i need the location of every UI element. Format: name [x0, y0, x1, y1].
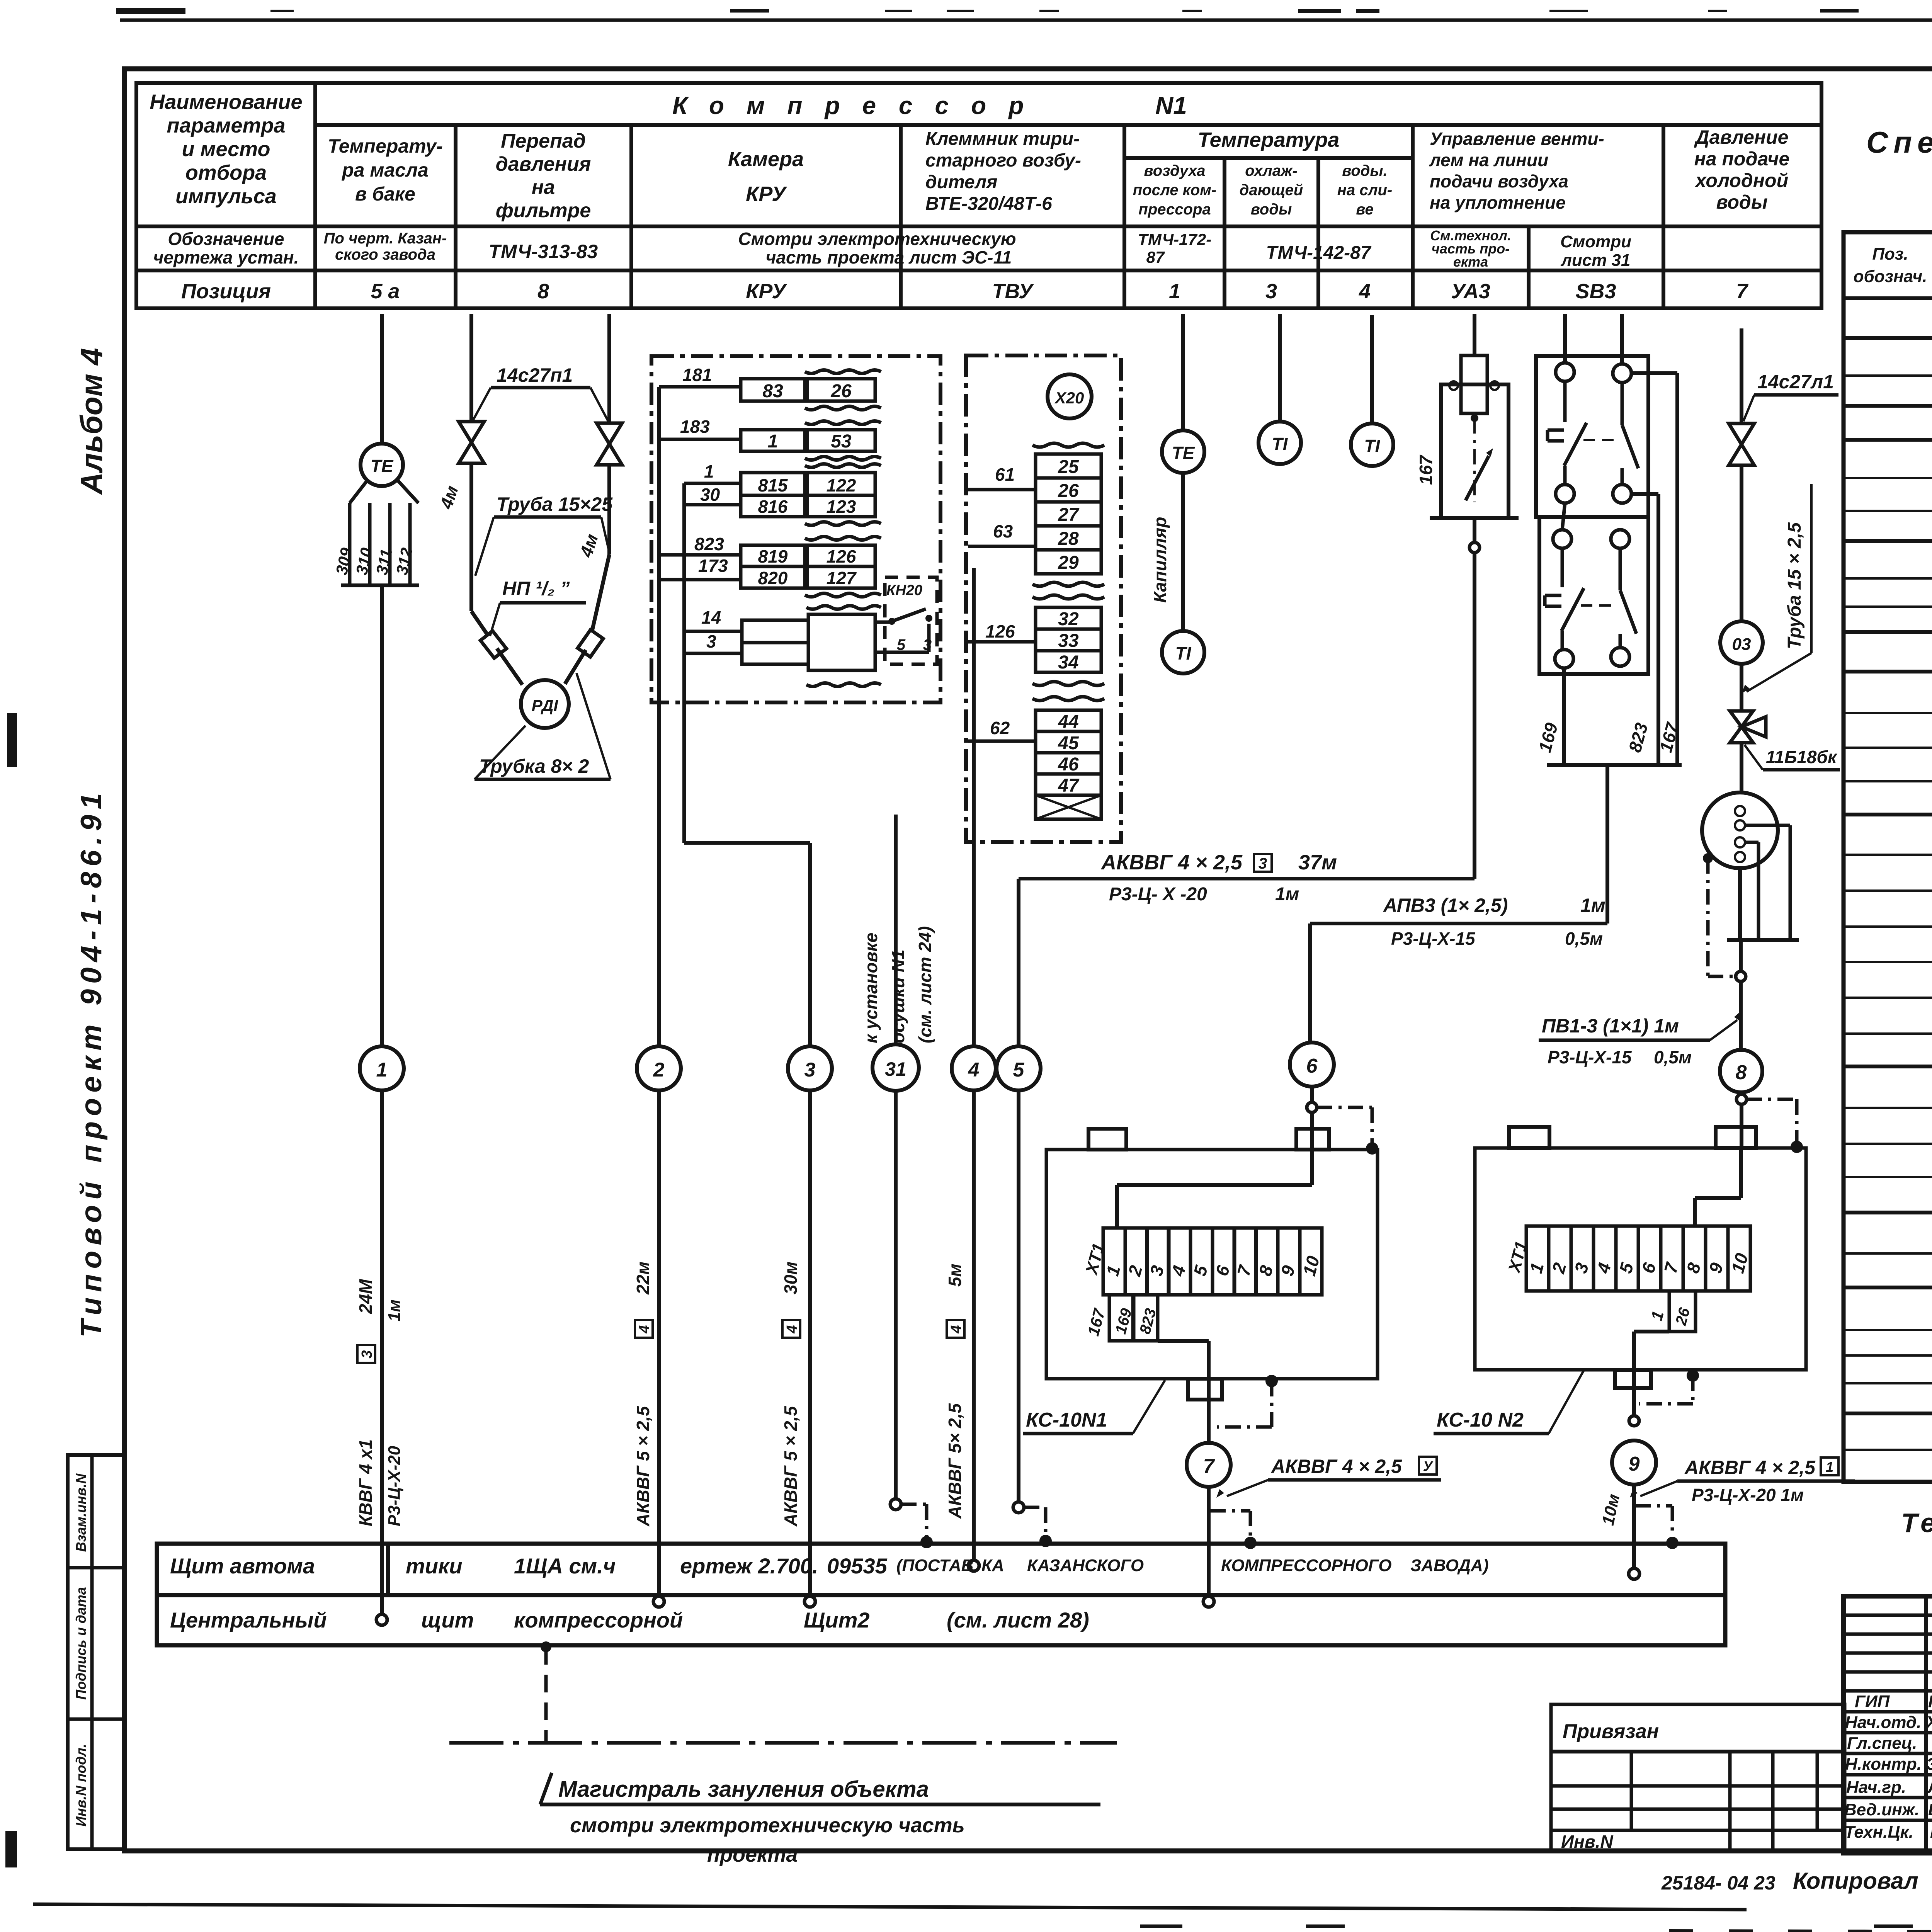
- svg-text:8: 8: [537, 280, 549, 303]
- svg-text:ПВ1-3 (1×1) 1м: ПВ1-3 (1×1) 1м: [1542, 1015, 1679, 1037]
- svg-text:Х20: Х20: [1054, 389, 1084, 407]
- instrument TE (oil temperature): [361, 444, 403, 486]
- svg-text:122: 122: [827, 475, 856, 495]
- svg-text:смотри электротехническую: смотри электротехническую часть: [570, 1814, 965, 1837]
- wire 167 down to cable run: [1473, 518, 1476, 879]
- svg-text:4: 4: [784, 1325, 800, 1333]
- svg-text:КАЗАНСКОГО: КАЗАНСКОГО: [1027, 1556, 1144, 1575]
- svg-text:Григорьян: Григорьян: [1928, 1692, 1932, 1711]
- svg-text:ертеж 2.700.: ертеж 2.700.: [680, 1554, 818, 1578]
- wire node 7 to panel: [1207, 1487, 1211, 1599]
- spec row Клапан угловой 14с 27п1: [1844, 336, 1932, 340]
- spec row Труба водогазопроводная: [1844, 1211, 1932, 1214]
- svg-text:Температура: Температура: [1198, 128, 1340, 151]
- svg-text:на уплотнение: на уплотнение: [1430, 192, 1566, 213]
- spec row КС-20: [1844, 477, 1932, 479]
- cabinet dash-dot box X20: [966, 355, 1121, 842]
- instrument TI drain water: [1370, 315, 1374, 423]
- crossed spare cell: [1036, 795, 1101, 819]
- svg-text:62: 62: [990, 718, 1010, 738]
- svg-text:3: 3: [1265, 280, 1277, 303]
- spec row Соединитель НП-1/2": [1844, 630, 1932, 634]
- svg-text:АКВВГ 5 × 2,5: АКВВГ 5 × 2,5: [781, 1406, 801, 1527]
- capillary line: [1181, 473, 1185, 631]
- svg-text:3: 3: [1259, 855, 1267, 872]
- spec row Р3-Ц - Х -15: [1844, 712, 1932, 714]
- svg-text:Технические: Технические: [1901, 1508, 1932, 1538]
- svg-text:Р3-Ц-Х-15: Р3-Ц-Х-15: [1548, 1047, 1632, 1067]
- svg-text:проекта: проекта: [707, 1843, 798, 1866]
- svg-text:14с27п1: 14с27п1: [497, 364, 573, 386]
- svg-text:Перепад: Перепад: [501, 130, 586, 152]
- svg-text:819: 819: [758, 546, 788, 566]
- svg-text:SВ3: SВ3: [1575, 280, 1616, 303]
- svg-text:после ком-: после ком-: [1133, 182, 1216, 199]
- svg-text:33: 33: [1058, 631, 1079, 651]
- svg-text:ТI: ТI: [1364, 436, 1381, 456]
- svg-text:2: 2: [653, 1059, 665, 1081]
- valve 14s27p1: [1729, 423, 1754, 444]
- svg-text:14с27л1: 14с27л1: [1757, 371, 1834, 393]
- svg-text:44: 44: [1058, 712, 1078, 732]
- svg-text:28: 28: [1058, 529, 1079, 549]
- svg-text:У: У: [1423, 1458, 1434, 1474]
- svg-text:ТМЧ-313-83: ТМЧ-313-83: [489, 241, 598, 262]
- spec row ГОСТ 3262-75: [1844, 1252, 1932, 1255]
- svg-text:1: 1: [1169, 280, 1180, 303]
- svg-text:тики: тики: [406, 1554, 463, 1578]
- wire down to node 8: [1738, 868, 1742, 940]
- wire TE bundle down to node 1: [380, 585, 384, 1046]
- svg-text:Позиция: Позиция: [181, 280, 271, 303]
- junction box KC-10N1: [1046, 1150, 1378, 1379]
- valve 14s27p1 right: [597, 423, 622, 444]
- svg-text:лист 31: лист 31: [1560, 251, 1630, 270]
- svg-text:22м: 22м: [633, 1262, 653, 1295]
- top thin rule: [120, 19, 1932, 22]
- svg-text:АКВВГ 5× 2,5: АКВВГ 5× 2,5: [945, 1403, 965, 1519]
- node circle 3: [788, 1046, 832, 1090]
- svg-text:Труба 15×25: Труба 15×25: [497, 493, 613, 515]
- svg-text:на подаче: на подаче: [1694, 148, 1790, 170]
- svg-text:КА: КА: [981, 1556, 1004, 1575]
- svg-text:Р3-Ц- Х -20: Р3-Ц- Х -20: [1109, 884, 1207, 905]
- terminal pair 1/30: [684, 482, 741, 485]
- wires to collector bar: [1562, 668, 1566, 765]
- svg-text:63: 63: [993, 521, 1013, 541]
- svg-text:09535: 09535: [827, 1554, 888, 1578]
- svg-text:(см. лист 24): (см. лист 24): [915, 926, 935, 1043]
- junction box KC-10N2: [1475, 1148, 1806, 1370]
- grounding main callout: [541, 1641, 551, 1652]
- svg-text:старного возбу-: старного возбу-: [925, 150, 1081, 171]
- svg-text:воды: воды: [1716, 191, 1767, 213]
- parameter table frame: [136, 83, 1821, 308]
- svg-text:КВВГ 4 х1: КВВГ 4 х1: [355, 1439, 376, 1526]
- instrument TI: [1162, 631, 1204, 673]
- svg-text:Р3-Ц-Х-15: Р3-Ц-Х-15: [1391, 929, 1476, 949]
- svg-text:холодной: холодной: [1694, 170, 1788, 191]
- control valve 11B18bk: [1730, 711, 1753, 727]
- node circle 6: [1290, 1043, 1334, 1087]
- pressure relay PDI: [521, 680, 569, 728]
- svg-text:воды.: воды.: [1342, 162, 1388, 179]
- X20 left stubs: [968, 488, 1036, 492]
- svg-text:ТМЧ-172-: ТМЧ-172-: [1138, 230, 1212, 248]
- svg-text:КРУ: КРУ: [746, 182, 787, 206]
- svg-text:ТI: ТI: [1272, 434, 1288, 454]
- svg-text:0,5м: 0,5м: [1654, 1047, 1692, 1067]
- svg-text:183: 183: [680, 417, 710, 437]
- svg-text:83: 83: [762, 381, 783, 401]
- svg-text:25: 25: [1058, 457, 1079, 477]
- svg-text:Альбом 4: Альбом 4: [74, 348, 109, 495]
- node circle 4: [952, 1046, 996, 1090]
- node circle 8: [1720, 1050, 1762, 1092]
- svg-text:815: 815: [758, 475, 788, 495]
- svg-text:1ЩА см.ч: 1ЩА см.ч: [514, 1554, 616, 1578]
- svg-text:Камера: Камера: [728, 148, 804, 171]
- instrument TE capillary: [1162, 430, 1204, 473]
- svg-text:26: 26: [1058, 481, 1079, 501]
- svg-text:823: 823: [694, 534, 724, 554]
- svg-text:Р3-Ц-Х-20: Р3-Ц-Х-20: [385, 1446, 404, 1526]
- svg-text:дающей: дающей: [1240, 182, 1303, 199]
- svg-text:РДI: РДI: [532, 696, 559, 714]
- svg-text:34: 34: [1058, 652, 1078, 673]
- node circle 5: [1017, 879, 1020, 1047]
- svg-text:Капилляр: Капилляр: [1150, 517, 1170, 603]
- exit wire to node 7: [1158, 1339, 1209, 1343]
- svg-text:46: 46: [1058, 754, 1079, 775]
- svg-text:ЗАВОДА): ЗАВОДА): [1410, 1556, 1489, 1575]
- svg-text:КОМПРЕССОРНОГО: КОМПРЕССОРНОГО: [1221, 1556, 1391, 1575]
- svg-text:3: 3: [706, 631, 716, 651]
- spec row АПВ 1×2,5: [1844, 1107, 1932, 1109]
- svg-text:173: 173: [698, 556, 728, 576]
- svg-text:ТМЧ-142-87: ТМЧ-142-87: [1266, 243, 1371, 263]
- coupling right: [578, 630, 603, 657]
- svg-text:АКВВГ 4 × 2,5: АКВВГ 4 × 2,5: [1270, 1456, 1402, 1477]
- svg-text:Наименование: Наименование: [150, 90, 302, 114]
- svg-text:Поз.: Поз.: [1872, 245, 1908, 264]
- svg-text:25184- 04 23: 25184- 04 23: [1661, 1872, 1776, 1894]
- spec row empty: [1844, 605, 1932, 608]
- svg-text:ТЕ: ТЕ: [371, 456, 394, 476]
- svg-text:181: 181: [682, 365, 712, 385]
- svg-text:часть проекта лист ЭС-11: часть проекта лист ЭС-11: [766, 247, 1012, 267]
- svg-text:Смотри электротехническую: Смотри электротехническую: [738, 229, 1016, 249]
- svg-text:4: 4: [1359, 280, 1371, 303]
- svg-text:КН20: КН20: [886, 582, 922, 599]
- X20 cells group 1: [1032, 443, 1104, 447]
- svg-text:820: 820: [758, 568, 788, 588]
- svg-text:Щит2: Щит2: [804, 1608, 870, 1632]
- svg-text:Нач.отд.: Нач.отд.: [1845, 1713, 1921, 1732]
- svg-text:(ПОСТАВ: (ПОСТАВ: [896, 1556, 973, 1575]
- svg-text:31: 31: [885, 1058, 906, 1080]
- spec row empty: [1844, 1354, 1932, 1357]
- svg-text:Компрессор: Компрессор: [672, 92, 1046, 119]
- svg-text:8: 8: [1736, 1061, 1747, 1084]
- svg-text:126: 126: [827, 546, 856, 566]
- svg-text:Типовой проект 904-1-86.91: Типовой проект 904-1-86.91: [75, 787, 108, 1337]
- svg-text:обознач.: обознач.: [1854, 267, 1927, 286]
- spec row Р3 -Ц- Х - 25: [1844, 780, 1932, 782]
- svg-text:Обозначение: Обозначение: [168, 229, 284, 249]
- spec row АКВВГ 5×2,5: [1844, 925, 1932, 928]
- svg-text:Н.контр.: Н.контр.: [1845, 1755, 1922, 1774]
- instrument TI cooling water: [1278, 314, 1282, 422]
- svg-text:Привязан: Привязан: [1563, 1720, 1659, 1743]
- svg-text:167: 167: [1416, 454, 1436, 485]
- wire box1 to node 3: [682, 702, 686, 843]
- spec row АВВГ 10 × 2,5: [1844, 997, 1932, 999]
- svg-text:ТЕ: ТЕ: [1172, 443, 1195, 463]
- scan blobs left edge: [7, 713, 17, 767]
- svg-text:ВТЕ-320/48Т-6: ВТЕ-320/48Т-6: [925, 194, 1052, 214]
- node circle 1: [360, 1046, 404, 1090]
- wire bar down to APV3 run: [1605, 765, 1609, 923]
- svg-text:на сли-: на сли-: [1337, 182, 1392, 199]
- svg-text:давления: давления: [496, 153, 591, 175]
- spec row Р3 -Ц- Х -20: [1844, 747, 1932, 749]
- internal wire from node 8: [1739, 1148, 1743, 1198]
- svg-text:Инв.N: Инв.N: [1561, 1832, 1613, 1852]
- svg-text:03: 03: [1732, 635, 1751, 654]
- spec row Коробка соединительная: [1844, 438, 1932, 442]
- svg-text:ве: ве: [1356, 201, 1373, 218]
- svg-text:Подпись и дата: Подпись и дата: [73, 1587, 89, 1700]
- svg-text:Инв.N подл.: Инв.N подл.: [73, 1744, 89, 1827]
- svg-text:87: 87: [1146, 248, 1165, 266]
- spec row КС-10: [1844, 510, 1932, 512]
- svg-text:29: 29: [1058, 553, 1079, 573]
- svg-text:30м: 30м: [781, 1262, 801, 1294]
- cabinet dash-dot box 1: [651, 356, 940, 702]
- node circle 7: [1187, 1443, 1231, 1487]
- svg-text:Температу-: Температу-: [328, 135, 443, 157]
- svg-text:3: 3: [804, 1059, 816, 1081]
- svg-text:1м: 1м: [1275, 884, 1299, 905]
- connector X20 circle: [1048, 374, 1092, 418]
- node circle 31 wire to dryer: [894, 815, 898, 1046]
- svg-text:АКВВГ 4 × 2,5: АКВВГ 4 × 2,5: [1100, 851, 1243, 874]
- svg-text:816: 816: [758, 497, 788, 517]
- spec row ТУ26 - 07 - 028 - 76: [1844, 374, 1932, 377]
- svg-text:26: 26: [830, 381, 852, 401]
- svg-text:1: 1: [704, 461, 714, 481]
- scan artifact dashes top: [116, 8, 185, 14]
- svg-text:11Б18бк: 11Б18бк: [1766, 747, 1838, 767]
- svg-text:импульса: импульса: [175, 185, 277, 208]
- terminal pair 14/3 with KN20: [684, 630, 742, 633]
- node circle 2: [637, 1046, 681, 1090]
- terminal pair 183: [659, 438, 741, 441]
- spec row 32 × 1, 8: [1844, 1382, 1932, 1384]
- wire node1 to panel: [380, 1090, 384, 1617]
- spec row ПВ1 1×1: [1844, 1143, 1932, 1145]
- svg-text:к установке: к установке: [861, 933, 881, 1043]
- svg-text:на: на: [532, 176, 555, 199]
- collector wire B in box1: [682, 483, 686, 702]
- svg-text:53: 53: [831, 431, 852, 452]
- cable APV3 run to node 6: [1310, 922, 1607, 925]
- svg-text:1: 1: [1826, 1459, 1833, 1475]
- svg-text:7: 7: [1736, 280, 1749, 303]
- svg-text:Труба 15 × 2,5: Труба 15 × 2,5: [1784, 522, 1805, 649]
- terminal pair 823/173: [659, 553, 741, 557]
- svg-text:ГИП: ГИП: [1855, 1692, 1890, 1711]
- svg-text:61: 61: [995, 464, 1015, 485]
- spec row Полоса 62-14 × 4 ГО: [1844, 1412, 1932, 1415]
- privyazan stamp: [1551, 1704, 1845, 1852]
- svg-text:отбора: отбора: [185, 161, 267, 184]
- svg-text:47: 47: [1058, 776, 1080, 796]
- svg-text:3: 3: [359, 1350, 375, 1358]
- impulse pipe right branch: [607, 314, 611, 423]
- svg-text:45: 45: [1058, 733, 1079, 753]
- svg-text:Центральный: Центральный: [170, 1608, 327, 1632]
- svg-text:14: 14: [701, 607, 721, 628]
- svg-text:6: 6: [1306, 1055, 1318, 1077]
- bottom scan line: [33, 1904, 1747, 1910]
- svg-text:Гл.спец.: Гл.спец.: [1847, 1734, 1917, 1753]
- svg-text:127: 127: [827, 568, 857, 588]
- svg-text:4: 4: [968, 1059, 980, 1081]
- svg-text:екта: екта: [1453, 254, 1488, 270]
- svg-text:фильтре: фильтре: [496, 199, 591, 222]
- svg-text:АПВ3 (1× 2,5): АПВ3 (1× 2,5): [1383, 895, 1508, 916]
- automation panel 1ShchA: [157, 1544, 1725, 1595]
- svg-text:Смотри: Смотри: [1560, 232, 1631, 251]
- svg-text:1: 1: [768, 431, 778, 452]
- spec row ('Кран контрольный 11Б 18бк Ду 15мм Ру1.6МПа', 50): [1844, 404, 1932, 408]
- svg-text:5 а: 5 а: [371, 280, 400, 303]
- solenoid valve device: [1441, 384, 1509, 518]
- svg-text:30: 30: [700, 485, 720, 505]
- wire node 9 to panel: [1632, 1485, 1636, 1571]
- coupling left: [480, 631, 506, 658]
- svg-text:По черт. Казан-: По черт. Казан-: [324, 230, 447, 247]
- svg-text:123: 123: [827, 497, 856, 517]
- svg-text:чертежа устан.: чертежа устан.: [153, 247, 299, 267]
- svg-text:параметра: параметра: [167, 114, 285, 137]
- svg-text:лем на линии: лем на линии: [1429, 150, 1548, 170]
- node circle 9: [1612, 1440, 1656, 1485]
- spec row АКВВГ 4×2,5: [1844, 889, 1932, 892]
- svg-text:24М: 24М: [355, 1279, 376, 1314]
- svg-text:1м: 1м: [1580, 895, 1605, 916]
- svg-text:Копировал: Копировал: [1793, 1868, 1918, 1894]
- title block frame: [1844, 1596, 1932, 1853]
- svg-text:Магистраль зануления объек: Магистраль зануления объекта: [558, 1777, 929, 1802]
- svg-text:7: 7: [1203, 1455, 1215, 1478]
- svg-text:1: 1: [376, 1059, 388, 1081]
- svg-text:4: 4: [636, 1325, 653, 1333]
- svg-text:(см. лист 28): (см. лист 28): [947, 1608, 1089, 1632]
- svg-text:1м: 1м: [385, 1299, 404, 1321]
- svg-text:N1: N1: [1155, 92, 1187, 119]
- svg-text:НП ¹/₂ ”: НП ¹/₂ ”: [502, 578, 570, 599]
- svg-text:Христофоров: Христофоров: [1925, 1713, 1932, 1732]
- node circle 31: [872, 1044, 919, 1091]
- wire from pressure column: [1740, 328, 1743, 423]
- wire X20 to node 4: [972, 568, 976, 1046]
- multipoint connector crown 309-312: [350, 481, 367, 503]
- exit wire to node 9: [1634, 1330, 1669, 1333]
- svg-text:9: 9: [1629, 1453, 1640, 1475]
- svg-text:ТI: ТI: [1175, 643, 1192, 663]
- spec row Трубы электросварные Г: [1844, 1286, 1932, 1289]
- pushbutton KN20 dashed box: [885, 577, 937, 664]
- terminal pair 181: [659, 385, 741, 389]
- wire from table col 2 down: [380, 314, 384, 444]
- svg-text:КС-10N1: КС-10N1: [1026, 1409, 1107, 1431]
- svg-text:5м: 5м: [945, 1264, 965, 1287]
- spec row АКВВГ 7× 2,5: [1844, 961, 1932, 963]
- svg-text:Бутенко: Бутенко: [1928, 1800, 1932, 1819]
- svg-text:УА3: УА3: [1451, 280, 1490, 303]
- svg-text:воздуха: воздуха: [1144, 162, 1206, 179]
- svg-text:Золотарева: Золотарева: [1926, 1755, 1932, 1774]
- svg-text:Шрамко: Шрамко: [1930, 1823, 1932, 1842]
- svg-text:прессора: прессора: [1138, 201, 1211, 218]
- svg-text:и место: и место: [182, 138, 270, 161]
- svg-text:0,5м: 0,5м: [1565, 929, 1603, 949]
- spec table frame: [1844, 232, 1932, 1482]
- spec row ПВ3 1×1: [1844, 1176, 1932, 1178]
- wire from air-temp column: [1181, 314, 1185, 430]
- valve 14s27p1 left: [459, 422, 484, 442]
- left stamp boxes: [68, 1455, 124, 1849]
- spec row АКВВГ 14× 2,5: [1844, 1032, 1932, 1035]
- central panel Shchit2: [157, 1595, 1725, 1645]
- svg-text:Нач.гр.: Нач.гр.: [1846, 1778, 1906, 1797]
- cable AKVVG 4x2,5 37m run: [1019, 877, 1475, 881]
- svg-text:Вед.инж.: Вед.инж.: [1844, 1800, 1919, 1819]
- spec row Металлорукав ТУ22-398: [1844, 670, 1932, 673]
- wire from УА3 column: [1473, 314, 1476, 356]
- svg-text:АКВВГ 4 × 2,5: АКВВГ 4 × 2,5: [1684, 1457, 1816, 1478]
- svg-text:Щит автома: Щит автома: [170, 1554, 315, 1578]
- svg-text:ТВУ: ТВУ: [992, 280, 1034, 303]
- spec row В Ст3кп ГОСТ535 - 88: [1844, 1449, 1932, 1451]
- internal wire from node 6: [1310, 1087, 1314, 1105]
- svg-text:32: 32: [1058, 609, 1079, 629]
- svg-text:дителя: дителя: [925, 172, 997, 192]
- svg-text:Управление венти-: Управление венти-: [1430, 129, 1604, 149]
- svg-text:ского завода: ского завода: [335, 246, 435, 263]
- svg-text:подачи воздуха: подачи воздуха: [1430, 171, 1568, 191]
- svg-text:КРУ: КРУ: [746, 280, 787, 303]
- spec row 20 × 1,6: [1844, 1329, 1932, 1331]
- collector wire A in box1: [657, 387, 661, 702]
- svg-text:Спецификация: Спецификация: [1866, 125, 1932, 159]
- spec row 4 ст 8 × 2: [1844, 577, 1932, 580]
- svg-text:Р3-Ц-Х-20 1м: Р3-Ц-Х-20 1м: [1692, 1485, 1804, 1505]
- svg-text:4: 4: [948, 1325, 964, 1333]
- svg-text:осушки N1: осушки N1: [888, 949, 908, 1043]
- contact block lower: [1539, 517, 1648, 674]
- X20 cells group 3: [1032, 697, 1104, 701]
- svg-text:щит: щит: [421, 1608, 474, 1632]
- spec row Трубка резиновая ГОСТ: [1844, 539, 1932, 543]
- svg-text:Давление: Давление: [1694, 126, 1789, 148]
- svg-text:Клеммник тири-: Клеммник тири-: [925, 129, 1080, 149]
- spec row КВВГ 4×1: [1844, 854, 1932, 856]
- svg-text:ра масла: ра масла: [341, 159, 429, 181]
